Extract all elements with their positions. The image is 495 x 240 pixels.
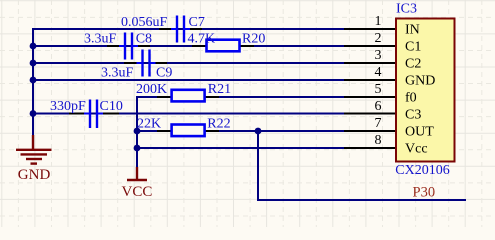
- svg-text:4: 4: [375, 65, 382, 80]
- capacitor C9 3.3uF: [124, 50, 167, 77]
- pin 2 line: [344, 45, 396, 47]
- svg-text:CX20106: CX20106: [395, 163, 449, 178]
- wire row5 net f0: [137, 96, 344, 98]
- capacitor C8 3.3uF: [107, 33, 150, 60]
- svg-text:7: 7: [375, 116, 382, 131]
- wire row2 net C1: [33, 45, 344, 47]
- pin 3 line: [344, 62, 396, 64]
- svg-text:VCC: VCC: [122, 184, 153, 200]
- pin 8 line: [344, 147, 396, 149]
- wire row7 net OUT: [137, 130, 344, 132]
- svg-text:6: 6: [375, 99, 382, 114]
- junction row6/bus: [30, 110, 37, 117]
- svg-text:0.056uF: 0.056uF: [121, 15, 168, 30]
- op IC3 CX20106 body: [396, 19, 455, 162]
- junction row8/VCC: [134, 145, 141, 152]
- wire row6 net C3: [33, 113, 344, 115]
- svg-text:1: 1: [375, 14, 382, 29]
- svg-text:GND: GND: [18, 167, 51, 183]
- svg-text:C2: C2: [405, 57, 421, 72]
- junction row3/bus: [30, 60, 37, 67]
- svg-text:4.7K: 4.7K: [188, 32, 216, 47]
- wire row1 net IN: [32, 28, 344, 30]
- wire OUT vertical to P30: [257, 131, 259, 200]
- svg-text:3: 3: [375, 48, 382, 63]
- junction row4/bus: [30, 77, 37, 84]
- svg-text:C9: C9: [156, 66, 172, 81]
- resistor R22 22K: [157, 125, 219, 137]
- svg-text:C7: C7: [189, 15, 205, 30]
- svg-text:22K: 22K: [137, 117, 161, 132]
- svg-text:Vcc: Vcc: [405, 142, 428, 157]
- svg-text:C10: C10: [100, 99, 123, 114]
- svg-text:IC3: IC3: [396, 2, 417, 17]
- ground symbol: [16, 135, 52, 164]
- svg-text:f0: f0: [405, 91, 417, 106]
- junction row2/bus: [30, 43, 37, 50]
- junction row7/VCC: [134, 128, 141, 135]
- pin 4 line: [344, 79, 396, 81]
- svg-text:330pF: 330pF: [50, 99, 86, 114]
- svg-text:GND: GND: [405, 74, 435, 89]
- junction row7/OUT drop: [255, 128, 262, 135]
- wire row8 net Vcc: [137, 147, 344, 149]
- svg-text:5: 5: [375, 82, 382, 97]
- svg-text:2: 2: [375, 31, 382, 46]
- wire GND bus vertical: [32, 28, 34, 136]
- svg-text:200K: 200K: [136, 82, 167, 97]
- resistor R20 4.7K: [192, 40, 254, 52]
- svg-text:3.3uF: 3.3uF: [84, 32, 117, 47]
- svg-text:R20: R20: [242, 32, 265, 47]
- svg-text:R22: R22: [207, 117, 230, 132]
- svg-text:OUT: OUT: [405, 125, 434, 140]
- svg-text:C8: C8: [136, 32, 152, 47]
- pin 7 line: [344, 130, 396, 132]
- resistor R21 200K: [157, 90, 219, 102]
- svg-text:3.3uF: 3.3uF: [101, 66, 134, 81]
- pin 1 line: [344, 28, 396, 30]
- capacitor C7 0.056uF: [159, 16, 202, 43]
- wire row3 net C2: [33, 62, 344, 64]
- wire row4 net GND: [33, 79, 344, 81]
- svg-text:R21: R21: [208, 82, 231, 97]
- svg-text:8: 8: [375, 133, 382, 148]
- svg-text:C1: C1: [405, 40, 421, 55]
- svg-text:IN: IN: [405, 23, 420, 38]
- wire VCC vertical: [136, 96, 138, 168]
- capacitor C10 330pF: [69, 100, 119, 129]
- pin 5 line: [344, 96, 396, 98]
- VCC power symbol: [127, 167, 147, 180]
- pin 6 line: [344, 113, 396, 115]
- svg-text:C3: C3: [405, 108, 421, 123]
- svg-text:P30: P30: [413, 185, 436, 201]
- wire P30 bottom: [257, 199, 466, 201]
